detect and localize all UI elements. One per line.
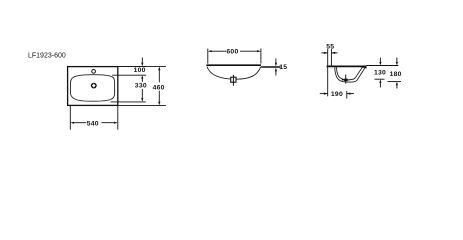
svg-text:190: 190: [331, 91, 343, 98]
svg-text:330: 330: [135, 83, 147, 90]
svg-text:600: 600: [226, 49, 238, 56]
svg-text:540: 540: [87, 120, 99, 127]
svg-text:460: 460: [153, 84, 165, 91]
svg-text:180: 180: [390, 71, 402, 78]
svg-text:130: 130: [374, 70, 386, 77]
svg-text:100: 100: [134, 67, 146, 74]
svg-text:LF1923-600: LF1923-600: [28, 53, 66, 60]
svg-text:15: 15: [279, 64, 287, 71]
